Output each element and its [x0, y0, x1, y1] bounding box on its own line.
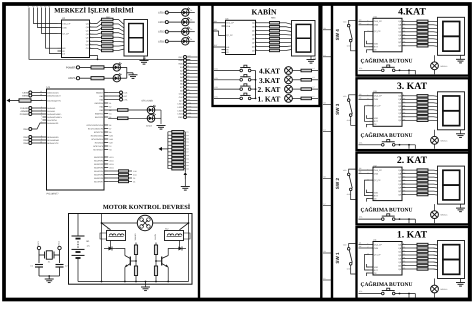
svg-text:QT_CP: QT_CP — [374, 179, 381, 182]
wire SW 2 bottom — [351, 191, 356, 200]
wire resistor to border L1 — [312, 97, 319, 99]
wire OSC1 down — [38, 250, 40, 263]
IC U2 display decoder — [62, 20, 90, 58]
svg-text:RE0/AN5/RD: RE0/AN5/RD — [47, 136, 59, 139]
svg-text:ASAĞI: ASAĞI — [154, 234, 157, 240]
net stub left floor 2 B — [323, 205, 332, 207]
svg-text:QT_CP: QT_CP — [226, 34, 233, 37]
relay contact RL1 — [101, 222, 103, 224]
net stub left floor 3 A — [323, 103, 332, 105]
7-segment display floor 1 — [438, 241, 465, 279]
resistor R18 — [118, 109, 129, 112]
svg-text:PIC16F877: PIC16F877 — [47, 193, 60, 196]
svg-text:RA5/AN4/SS: RA5/AN4/SS — [47, 122, 59, 125]
node Q1 base — [135, 260, 137, 262]
IC U5 cabin decoder — [226, 20, 256, 54]
IC U11 floor decoder — [373, 242, 402, 276]
node VDD arrow RP1 — [159, 147, 163, 151]
7-segment display floor 2 — [438, 166, 465, 204]
lamp L4 — [285, 67, 293, 75]
svg-text:KT1: KT1 — [215, 95, 218, 98]
wire call button to node floor 3 — [395, 144, 415, 146]
wire ASNSR to U1 — [32, 110, 43, 112]
lamp L1 — [285, 95, 293, 103]
diode D10 — [174, 248, 179, 250]
svg-text:MR26LS: MR26LS — [441, 288, 449, 291]
svg-text:1. KAT: 1. KAT — [258, 94, 281, 103]
svg-text:MERKEZİ İŞLEM BİRİMİ: MERKEZİ İŞLEM BİRİMİ — [54, 7, 134, 15]
wire floor 2 IC input 2 — [359, 173, 370, 175]
microcontroller U1 PIC16F877 — [47, 89, 105, 190]
svg-text:LED3: LED3 — [109, 163, 114, 166]
svg-text:LED1: LED1 — [178, 103, 184, 106]
svg-text:ASG: ASG — [133, 173, 137, 176]
svg-text:RC6/TX/CK: RC6/TX/CK — [93, 145, 104, 148]
svg-text:QG: QG — [252, 45, 255, 48]
svg-text:QG: QG — [86, 44, 90, 47]
resistor cabin L3 — [301, 79, 312, 82]
svg-text:MOTOR KONTROL DEVRESİ: MOTOR KONTROL DEVRESİ — [103, 203, 191, 211]
svg-text:RD0/PSP0: RD0/PSP0 — [94, 156, 103, 159]
wire floor 1 IC input 1 — [359, 244, 370, 246]
svg-text:RD5/PSP5: RD5/PSP5 — [94, 173, 103, 176]
wire lamp to resistor L1 — [292, 97, 301, 99]
ground display floor 2 — [456, 207, 465, 209]
wire from top edge to cathode rail — [29, 8, 190, 60]
wire LED1 to LED D1 — [168, 40, 181, 42]
wire SW 4 top — [349, 20, 356, 24]
wire button to bus row 3 — [251, 79, 256, 81]
wire lamp top floor 3 — [434, 130, 436, 137]
motor M1 — [137, 215, 152, 230]
wire battery bottom — [77, 258, 79, 282]
motor control box — [69, 214, 193, 285]
svg-text:ÇAĞRIMA BUTONU: ÇAĞRIMA BUTONU — [360, 58, 412, 65]
LED D4 — [182, 9, 189, 16]
svg-text:LED2: LED2 — [109, 159, 114, 162]
svg-text:ÇAĞRIMA BUTONU: ÇAĞRIMA BUTONU — [360, 206, 412, 213]
button cabin 3 — [240, 79, 243, 82]
svg-text:STK.ALMB: STK.ALMB — [141, 100, 153, 103]
wire floor 3 IC input 1 — [359, 95, 370, 97]
svg-text:CKA_CP: CKA_CP — [374, 20, 383, 23]
svg-text:SW3: SW3 — [23, 139, 29, 142]
svg-text:4.KAT: 4.KAT — [259, 67, 280, 76]
svg-text:YUKARI: YUKARI — [134, 233, 137, 241]
svg-text:RB0/INT: RB0/INT — [96, 91, 104, 94]
svg-text:RC4/SDI/SDA: RC4/SDI/SDA — [91, 138, 104, 141]
svg-text:S3: S3 — [324, 101, 326, 104]
wire cabin IC input 1 — [214, 22, 222, 24]
net stub left floor 1 B — [323, 279, 332, 281]
diode D9 — [104, 248, 109, 250]
LED D7 — [147, 106, 155, 114]
svg-text:CKA_CP: CKA_CP — [374, 243, 383, 246]
svg-text:S4: S4 — [324, 27, 326, 30]
svg-text:LED4: LED4 — [109, 166, 114, 169]
svg-text:D4: D4 — [190, 9, 192, 12]
wire floor 2 QT to bottom pins — [365, 180, 370, 196]
wire lamp to resistor L3 — [292, 79, 301, 81]
svg-text:VDD: VDD — [374, 43, 379, 46]
svg-text:14: 14 — [48, 5, 50, 8]
svg-text:RC0/T1OSO/T1CKI: RC0/T1OSO/T1CKI — [87, 124, 104, 127]
svg-text:L2: L2 — [313, 86, 315, 89]
wire R10 to LED D6 — [104, 77, 113, 79]
svg-text:LED4: LED4 — [178, 113, 184, 116]
wire floor 4 QT to bottom pins — [365, 31, 370, 47]
wire display U6 ground — [310, 56, 312, 60]
svg-text:L3: L3 — [324, 128, 326, 131]
wire floor 1 QT to bottom pins — [365, 255, 370, 271]
svg-text:D3: D3 — [190, 19, 192, 22]
wire R3 to Q2 base — [156, 260, 161, 262]
wire RP1 right bus — [184, 132, 186, 172]
wire bus RN5 to display — [434, 244, 438, 247]
wire floor 1 IC input 2 — [359, 247, 370, 249]
IC U14 floor decoder — [373, 18, 402, 52]
svg-text:MCLR/Vpp/THV: MCLR/Vpp/THV — [47, 99, 61, 102]
svg-text:RE2/AN7/CS: RE2/AN7/CS — [47, 142, 59, 145]
LED D2 — [182, 28, 189, 35]
svg-text:CKA_CP: CKA_CP — [62, 22, 71, 25]
svg-text:SW5: SW5 — [109, 134, 113, 137]
ground below display U3 — [140, 60, 149, 62]
svg-text:LED3: LED3 — [178, 109, 184, 112]
svg-text:QT_CP: QT_CP — [374, 253, 381, 256]
svg-text:CO: CO — [86, 47, 89, 50]
net stub left floor 2 A — [323, 178, 332, 180]
floor section left border — [331, 4, 333, 300]
svg-text:KT2: KT2 — [215, 86, 218, 89]
svg-text:B6: B6 — [109, 124, 111, 127]
svg-text:QT_CP: QT_CP — [374, 30, 381, 33]
IC U12 floor decoder — [373, 167, 402, 201]
middle section right border — [320, 4, 322, 300]
svg-text:RA3/AN3/VREF+: RA3/AN3/VREF+ — [47, 116, 62, 119]
svg-text:GND: GND — [178, 116, 183, 119]
resistor network RN8 — [402, 20, 406, 22]
ground crystal — [45, 278, 54, 280]
svg-text:CKA_CP: CKA_CP — [374, 95, 383, 98]
power arrow RP1 — [184, 175, 186, 179]
wire resistor to border L3 — [312, 79, 319, 81]
relay RL1 — [107, 231, 126, 241]
svg-text:QG: QG — [398, 116, 402, 119]
wire call button row floor 1 — [359, 293, 382, 295]
wire D9 to Q1 collector — [116, 249, 125, 256]
resistor R9 — [91, 66, 104, 69]
wire SW 3 top — [349, 95, 356, 99]
svg-text:YUKARI: YUKARI — [20, 107, 29, 110]
node MCLR arrow — [7, 99, 11, 103]
ground POWER ARIZA — [129, 74, 138, 76]
wire node down floor 1 — [408, 294, 410, 298]
wire call button row floor 4 — [359, 69, 382, 71]
wire motor left rail — [102, 223, 138, 282]
wire RL1 to Q1 collector — [110, 241, 112, 249]
svg-text:KT4: KT4 — [215, 68, 218, 71]
wire bus from top edge to U2 inputs — [34, 8, 58, 24]
svg-text:SW 1: SW 1 — [335, 252, 340, 264]
wire display floor 1 ground — [460, 279, 462, 283]
svg-text:RC2/CCP1: RC2/CCP1 — [94, 131, 103, 134]
wire floor 2 CE pin — [367, 199, 370, 202]
wire floor 2 IC input 1 — [359, 169, 370, 171]
wire POWER to R9 — [80, 66, 91, 68]
wire POWER to U1 — [32, 113, 43, 115]
net stub left floor 4 A — [323, 29, 332, 31]
svg-text:CIKIS: CIKIS — [22, 92, 28, 95]
svg-text:RB7/PGD: RB7/PGD — [95, 116, 104, 119]
wire bus RN2 to display U3 — [113, 20, 124, 25]
wire SW 2 top — [349, 169, 356, 173]
wire lamp top floor 1 — [434, 279, 436, 286]
svg-text:OSC2/CLKOUT: OSC2/CLKOUT — [47, 94, 61, 97]
capacitor C2 — [56, 264, 64, 266]
svg-text:LED2: LED2 — [158, 31, 165, 34]
wire R9 to LED D5 — [104, 66, 113, 68]
svg-text:ÇAĞRIMA BUTONU: ÇAĞRIMA BUTONU — [360, 281, 412, 288]
wire floor 4 CE pin — [367, 50, 370, 53]
wire RP1 to ground — [184, 179, 186, 186]
svg-text:QT_CP: QT_CP — [62, 32, 69, 35]
svg-text:B4: B4 — [109, 112, 111, 115]
button cabin 1 — [240, 97, 243, 100]
svg-text:LED1: LED1 — [109, 156, 114, 159]
wire resistor to border L4 — [312, 70, 319, 72]
svg-text:RB1: RB1 — [100, 95, 104, 98]
svg-text:CTA: CTA — [179, 93, 184, 96]
7-segment display U6 — [292, 21, 316, 57]
svg-text:RD2/PSP2: RD2/PSP2 — [94, 163, 103, 166]
LED D6 — [113, 75, 120, 82]
svg-text:CLK: CLK — [179, 96, 184, 99]
switch SW 3 — [347, 99, 350, 102]
lamp floor 3 — [431, 136, 439, 144]
wire resistor to border L2 — [312, 88, 319, 90]
wire cabin row 4 — [214, 70, 240, 72]
wire lamp bottom floor 3 — [434, 144, 436, 149]
lamp L3 — [285, 76, 293, 84]
wire display floor 4 ground — [460, 55, 462, 59]
svg-text:RB6/PGC: RB6/PGC — [95, 112, 104, 115]
wire button to bus row 1 — [251, 97, 256, 99]
wire RL2 to Q2 collector — [179, 241, 181, 249]
U1 port B pins — [104, 92, 108, 94]
svg-text:RD7/PSP7: RD7/PSP7 — [94, 180, 103, 183]
svg-text:SW 4: SW 4 — [335, 29, 340, 41]
svg-text:SW 3: SW 3 — [335, 103, 340, 115]
svg-text:RE1/AN6/WR: RE1/AN6/WR — [47, 139, 59, 142]
wire cabin row 3 — [214, 79, 240, 81]
wire RL1 loop left — [100, 233, 107, 239]
svg-text:B8: B8 — [109, 131, 111, 134]
svg-text:D2: D2 — [190, 28, 192, 31]
wire display floor 2 ground — [460, 204, 462, 208]
wire floor 4 VDD pin — [367, 41, 370, 44]
svg-text:L4: L4 — [313, 67, 315, 70]
wire R18 to LED D7 — [128, 109, 147, 111]
wire SW 1 top — [349, 244, 356, 248]
IC U13 floor decoder — [373, 93, 402, 127]
resistor R2 — [135, 243, 137, 246]
svg-text:L1: L1 — [313, 95, 315, 98]
svg-text:12: 12 — [40, 5, 42, 8]
wire U1 to R19 — [108, 117, 117, 119]
wire lamp bottom floor 1 — [434, 293, 436, 298]
svg-text:LED2: LED2 — [178, 106, 184, 109]
wire floor 3 VDD pin — [367, 115, 370, 118]
svg-text:CKB: CKB — [374, 247, 379, 250]
relay contact RL2 — [188, 222, 190, 224]
svg-text:RL2: RL2 — [165, 228, 168, 231]
button cabin 2 — [240, 88, 243, 91]
svg-text:9: 9 — [28, 5, 29, 8]
svg-text:SW4: SW4 — [23, 142, 29, 145]
svg-text:RN3: RN3 — [271, 17, 276, 20]
floor box 3.KAT border — [357, 78, 470, 150]
svg-text:RC3/SCK/SCL: RC3/SCK/SCL — [91, 134, 103, 137]
floor box 1.KAT border — [357, 227, 470, 299]
call button floor 2 — [382, 218, 385, 221]
svg-text:MR26LS: MR26LS — [441, 65, 449, 68]
wire floor 1 VDD pin — [367, 264, 370, 267]
ground display floor 1 — [456, 282, 465, 284]
ground display floor 3 — [456, 133, 465, 135]
wire cabin button bus — [255, 71, 257, 99]
lamp floor 2 — [431, 211, 439, 219]
svg-text:MR26LS: MR26LS — [441, 139, 449, 142]
LED D5 — [113, 64, 120, 71]
svg-text:OSC2: OSC2 — [58, 241, 61, 246]
wire lamp bottom floor 2 — [434, 219, 436, 224]
svg-text:SW1: SW1 — [23, 128, 29, 131]
svg-text:RD4/PSP4: RD4/PSP4 — [94, 170, 103, 173]
terminals CLK ALT CTA — [108, 92, 119, 94]
wire D10 to Q2 collector — [168, 249, 174, 256]
svg-text:RA4/T0CKI: RA4/T0CKI — [47, 119, 57, 122]
wire D7 D8 common — [155, 110, 161, 124]
wire LED4 to LED D4 — [168, 12, 181, 14]
wire SW1 to U1 — [32, 123, 43, 129]
svg-text:1. KAT: 1. KAT — [397, 230, 428, 241]
wire SW 4 bottom — [351, 42, 356, 51]
svg-text:LED3: LED3 — [158, 21, 165, 24]
svg-text:RB3/PGM: RB3/PGM — [95, 102, 104, 105]
switch SW 4 — [347, 24, 350, 27]
svg-text:11: 11 — [36, 5, 38, 8]
wire call button to node floor 1 — [395, 293, 415, 295]
wire D6 right — [121, 77, 127, 79]
wire SW3 to U1 — [32, 139, 43, 141]
svg-text:CKB: CKB — [374, 98, 379, 101]
wire floor 2 VDD pin — [367, 190, 370, 193]
lamp floor 4 — [431, 62, 439, 70]
wire GIRIS to U1 — [32, 95, 43, 97]
svg-text:CKB: CKB — [62, 26, 67, 29]
svg-text:Q3: Q3 — [359, 93, 361, 96]
wire lamp top floor 2 — [434, 204, 436, 211]
svg-text:CKA_CP: CKA_CP — [226, 22, 234, 25]
wire node down floor 4 — [408, 70, 410, 74]
svg-text:KB1: KB1 — [214, 20, 217, 23]
svg-text:ARIZA: ARIZA — [146, 125, 153, 128]
svg-text:LED4: LED4 — [158, 12, 165, 15]
wire call button to node floor 2 — [395, 218, 415, 220]
wire R1 to U1 MCLR — [31, 100, 43, 102]
wire bus RN6 to display — [434, 169, 438, 172]
wire motor right rail — [153, 223, 189, 282]
svg-text:CKB: CKB — [374, 24, 379, 27]
wire cabin row 1 — [214, 97, 240, 99]
wire LED3 to LED D3 — [168, 21, 181, 23]
svg-text:CKB: CKB — [374, 172, 379, 175]
wire button to bus row 4 — [251, 70, 256, 72]
svg-text:Q4: Q4 — [359, 18, 361, 21]
wire LED common vertical — [126, 67, 128, 78]
wire cabin row 2 — [214, 88, 240, 90]
wire floor 3 IC input 2 — [359, 98, 370, 100]
resistor R7 lower — [155, 261, 157, 266]
resistor network RN6 — [402, 169, 406, 171]
wire floor 3 CE pin — [367, 124, 370, 127]
svg-text:S2: S2 — [324, 176, 326, 179]
svg-text:13: 13 — [44, 5, 46, 8]
wire bus RN8 to display — [434, 20, 438, 23]
LED D1 — [182, 38, 189, 45]
svg-text:LED1: LED1 — [158, 40, 165, 43]
ground display floor 4 — [456, 58, 465, 60]
svg-text:RL1: RL1 — [107, 228, 110, 231]
ground display U6 — [307, 59, 316, 61]
svg-text:B2: B2 — [109, 105, 111, 108]
wire button to bus row 2 — [251, 88, 256, 90]
svg-text:RC7/RX/DT: RC7/RX/DT — [93, 148, 104, 151]
wire floor 4 IC input 1 — [359, 20, 370, 22]
call button floor 3 — [382, 144, 385, 147]
svg-text:KB2: KB2 — [214, 28, 217, 31]
switch SW 1 — [347, 248, 350, 251]
wire LED2 to LED D2 — [168, 31, 181, 33]
svg-text:2. KAT: 2. KAT — [397, 155, 428, 166]
svg-text:CLK: CLK — [124, 91, 129, 94]
capacitor C1 — [35, 264, 43, 266]
resistors U1 port D outputs — [108, 170, 118, 172]
wire ARIZA to R10 — [80, 77, 91, 79]
wire display U3 to ground — [143, 56, 145, 61]
svg-text:RA2/AN2/VREF-: RA2/AN2/VREF- — [47, 113, 61, 116]
svg-text:ARIZA: ARIZA — [68, 77, 76, 80]
svg-text:B1: B1 — [109, 102, 111, 105]
resistor R10 — [91, 77, 104, 80]
wire lamp top floor 4 — [434, 55, 436, 62]
wire CIKIS to U1 — [32, 92, 43, 94]
svg-text:Q2: Q2 — [359, 167, 361, 170]
svg-text:SW6: SW6 — [109, 138, 113, 141]
svg-text:3. KAT: 3. KAT — [397, 81, 428, 92]
transistor Q2 — [161, 257, 163, 266]
svg-text:RST: RST — [214, 44, 217, 47]
wire call button row floor 2 — [359, 218, 382, 220]
resistor R3 — [155, 243, 157, 246]
wire R19 to LED D8 — [128, 117, 147, 119]
wire bus RN7 to display — [434, 95, 438, 98]
svg-text:MR: MR — [62, 47, 66, 50]
battery B1 — [77, 214, 79, 236]
wire SW2 to U1 — [32, 136, 43, 138]
crystal X1 — [39, 254, 45, 256]
